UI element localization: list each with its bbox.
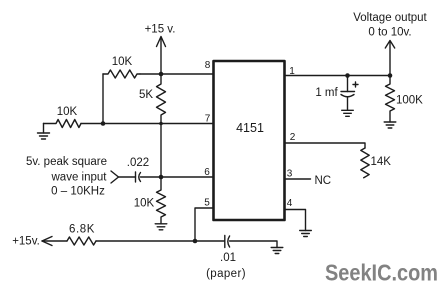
ground (right of C2) xyxy=(271,248,283,254)
svg-text:1 mf: 1 mf xyxy=(315,87,338,99)
voltage output arrow xyxy=(385,41,394,76)
wire vertical from R1 left down to pin7 row xyxy=(102,74,104,124)
+15V supply arrow (bottom, pointing left) xyxy=(42,237,52,246)
wire pin4 to ground xyxy=(285,210,306,231)
wire input to C1 xyxy=(119,176,136,178)
svg-text:100K: 100K xyxy=(396,95,423,107)
svg-text:.01: .01 xyxy=(220,252,236,264)
capacitor C3 1mf (polarized) xyxy=(315,76,358,111)
node junction 5K / pin7 wire xyxy=(159,122,163,126)
svg-text:SeekIC.com: SeekIC.com xyxy=(325,260,438,286)
input arrow xyxy=(111,171,119,183)
ground (left, below R3) xyxy=(38,124,50,140)
capacitor C2 .01 (paper) xyxy=(206,236,246,281)
svg-text:10K: 10K xyxy=(134,198,155,210)
svg-text:14K: 14K xyxy=(371,156,392,168)
wire bottom rail xyxy=(96,240,225,242)
svg-text:4151: 4151 xyxy=(236,121,264,135)
node junction output / R6 xyxy=(388,73,393,78)
wire pin7 row xyxy=(81,123,214,125)
+15V supply arrow (top) xyxy=(157,37,166,75)
resistor R3 10K (left) xyxy=(44,106,82,128)
wire pin3 to NC xyxy=(285,178,311,180)
svg-text:5: 5 xyxy=(204,198,210,209)
resistor R7 14K xyxy=(361,148,391,178)
ground (below C3) xyxy=(342,110,354,116)
svg-text:NC: NC xyxy=(315,175,332,187)
svg-text:2: 2 xyxy=(290,132,296,143)
svg-text:5K: 5K xyxy=(139,89,153,101)
svg-text:10K: 10K xyxy=(57,106,78,118)
svg-text:10K: 10K xyxy=(112,56,133,68)
wire pin1 row xyxy=(285,75,391,77)
voltage output label xyxy=(353,12,427,39)
svg-text:0 – 10KHz: 0 – 10KHz xyxy=(51,186,105,198)
node junction pin5 / bottom rail xyxy=(193,239,198,244)
op-amp U1 4151 converter IC xyxy=(214,61,285,220)
svg-text:wave input: wave input xyxy=(51,172,108,184)
svg-text:+15 v.: +15 v. xyxy=(145,24,176,36)
wire pin2 to R7 xyxy=(285,143,366,148)
resistor R6 100K xyxy=(386,76,424,123)
svg-text:(paper): (paper) xyxy=(206,268,246,280)
resistor R1 10K (top) xyxy=(103,56,140,78)
svg-text:8: 8 xyxy=(205,60,211,71)
svg-text:+15v.: +15v. xyxy=(12,236,40,248)
resistor R2 5K (vertical) xyxy=(139,74,166,124)
wire C1 to pin6 xyxy=(141,176,214,178)
wire arrow to R5 xyxy=(42,240,67,242)
resistor R4 10K (pulldown) xyxy=(134,177,166,224)
wire pin 5 to bottom rail xyxy=(195,208,214,241)
ground (below R6) xyxy=(384,122,396,128)
input signal label xyxy=(26,156,107,198)
svg-text:4: 4 xyxy=(287,198,293,209)
svg-text:.022: .022 xyxy=(127,157,149,169)
node junction at +15V / pin8 xyxy=(159,72,164,77)
node junction C3 top xyxy=(345,73,350,78)
ground (below pin4) xyxy=(300,231,312,237)
svg-text:0 to 10v.: 0 to 10v. xyxy=(368,27,411,39)
resistor R5 6.8K xyxy=(67,224,96,246)
ground (below R4) xyxy=(155,224,167,230)
svg-text:5v. peak square: 5v. peak square xyxy=(26,156,107,168)
wire C2 to ground stem xyxy=(230,241,277,248)
wire vertical 5K bottom down to pin6 row xyxy=(160,124,162,178)
svg-text:Voltage output: Voltage output xyxy=(353,12,427,24)
node junction pin6 row xyxy=(159,175,164,180)
capacitor C1 .022 xyxy=(127,157,149,182)
wire pin8 row xyxy=(140,73,214,75)
svg-text:3: 3 xyxy=(287,169,293,180)
node junction R3 / vertical xyxy=(101,121,106,126)
svg-text:6.8K: 6.8K xyxy=(69,224,95,236)
